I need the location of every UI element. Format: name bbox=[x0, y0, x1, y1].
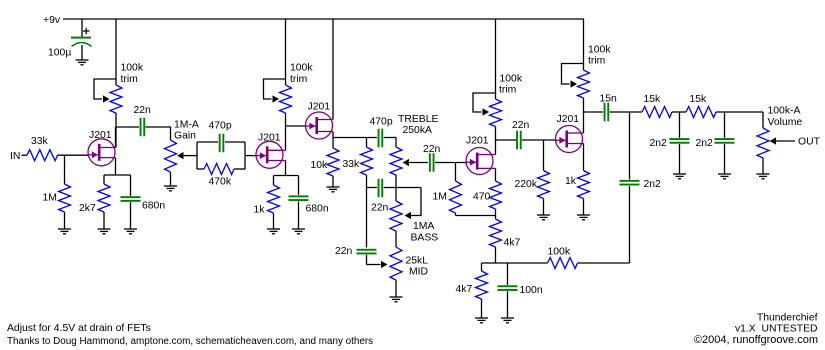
wire C-100u to ground bbox=[81, 45, 83, 60]
trimpot TR4 100k zigzag bbox=[578, 70, 590, 98]
svg-text:Thunderchief: Thunderchief bbox=[757, 313, 818, 324]
trimpot TR3 wiper bbox=[473, 93, 496, 116]
ground under 1k stage2 bbox=[267, 229, 280, 234]
potentiometer treble 250kA zigzag bbox=[390, 138, 402, 202]
svg-text:Thanks to Doug Hammond, ampton: Thanks to Doug Hammond, amptone.com, sch… bbox=[7, 336, 373, 347]
resistor 470k bbox=[204, 164, 234, 175]
capacitor 100n bbox=[498, 263, 518, 318]
svg-text:15k: 15k bbox=[644, 94, 662, 105]
svg-text:2n2: 2n2 bbox=[644, 179, 662, 190]
transistor Q4 J201 bbox=[466, 148, 496, 175]
svg-text:100k: 100k bbox=[290, 63, 313, 74]
trimpot TR3 100k zigzag bbox=[490, 99, 502, 127]
ground under 100n bbox=[501, 318, 514, 323]
wire bottom node bbox=[482, 262, 548, 264]
resistor 4k7 stage4 bbox=[490, 219, 502, 263]
ground under 680n stage1 bbox=[124, 229, 137, 234]
treble pot wiper bbox=[403, 159, 429, 166]
svg-text:J201: J201 bbox=[258, 133, 281, 144]
wire J1 source down bbox=[115, 158, 117, 175]
ground under 100u bbox=[76, 60, 89, 65]
wire feedback vertical lower bbox=[629, 186, 631, 263]
capacitor 2n2 second bbox=[715, 112, 735, 174]
wire 15k2 to volume bbox=[716, 111, 763, 113]
wire C22n to gain pot bbox=[146, 127, 171, 140]
ground under 220k bbox=[537, 215, 550, 220]
wire loop bottom right bbox=[234, 168, 245, 170]
transistor Q2 J201 bbox=[256, 141, 286, 168]
resistor 2k7 stage1 source bbox=[98, 175, 110, 229]
capacitor 470p stage2 bbox=[219, 134, 221, 153]
wire 9v to trim2 bbox=[285, 19, 287, 85]
wire C22n to J4 gate bbox=[435, 162, 466, 164]
capacitor 2n2 feedback bbox=[620, 180, 640, 182]
resistor 220k stage5 gate bbox=[538, 140, 550, 215]
wire volume to ground bbox=[762, 158, 764, 174]
transistor Q1 J201 bbox=[88, 139, 116, 166]
svg-text:100µ: 100µ bbox=[48, 48, 71, 59]
svg-text:4k7: 4k7 bbox=[456, 284, 473, 295]
svg-text:TREBLE: TREBLE bbox=[398, 114, 438, 125]
capacitor 22n stage4 out bbox=[516, 131, 518, 150]
svg-text:+9v: +9v bbox=[43, 15, 61, 26]
ground under 10k bbox=[327, 187, 340, 192]
svg-text:2n2: 2n2 bbox=[650, 138, 668, 149]
svg-text:10k: 10k bbox=[311, 160, 329, 171]
svg-text:1M: 1M bbox=[43, 193, 57, 204]
wire loop left side bbox=[196, 142, 198, 169]
ground under 1M bbox=[58, 229, 71, 234]
capacitor 22n stage1 out bbox=[140, 118, 142, 137]
wire 9v to trim1 bbox=[115, 19, 117, 85]
wire feedback vertical upper bbox=[629, 112, 631, 180]
capacitor 22n bass bbox=[378, 179, 380, 198]
svg-text:Volume: Volume bbox=[768, 117, 803, 128]
svg-text:Adjust for 4.5V at drain of FE: Adjust for 4.5V at drain of FETs bbox=[7, 323, 151, 334]
capacitor 22n treble out bbox=[429, 153, 431, 172]
potentiometer volume 100k-A zigzag bbox=[757, 128, 769, 158]
wire tone node right bbox=[384, 137, 396, 139]
trimpot TR1 wiper bbox=[94, 79, 116, 103]
svg-text:OUT: OUT bbox=[798, 137, 821, 148]
resistor 33k slope bbox=[361, 138, 373, 188]
svg-text:15n: 15n bbox=[600, 94, 618, 105]
wire trim1 to J1 drain bbox=[115, 113, 117, 148]
ground under 2n2 second bbox=[718, 174, 731, 179]
svg-text:470p: 470p bbox=[209, 121, 232, 132]
svg-text:BASS: BASS bbox=[411, 233, 439, 244]
resistor 1k stage2 source bbox=[268, 176, 280, 230]
wire 100k to feedback vertical bbox=[578, 262, 630, 264]
svg-text:250kA: 250kA bbox=[403, 125, 433, 136]
transistor Q3 J201 bbox=[306, 112, 334, 139]
wire tone node left bbox=[333, 137, 377, 139]
svg-text:1MA: 1MA bbox=[413, 221, 434, 232]
capacitor 100u polarity + bbox=[83, 30, 90, 32]
trimpot TR2 wiper bbox=[264, 79, 286, 103]
svg-text:J201: J201 bbox=[308, 102, 331, 113]
svg-text:trim: trim bbox=[121, 74, 138, 85]
svg-text:680n: 680n bbox=[306, 204, 329, 215]
wire IN stub bbox=[22, 154, 28, 156]
svg-text:1M-A: 1M-A bbox=[174, 120, 199, 131]
svg-text:100k: 100k bbox=[588, 45, 611, 56]
capacitor 680n stage1 bbox=[121, 175, 141, 229]
wire loop top left bbox=[197, 141, 218, 143]
wire bass node left bbox=[367, 187, 378, 189]
wire C15n to fb node bbox=[610, 111, 643, 113]
ground under gain pot bbox=[164, 186, 177, 191]
capacitor 100u bbox=[71, 37, 92, 47]
ground under 2n2 first bbox=[673, 174, 686, 179]
resistor 470 stage4 bbox=[490, 181, 502, 219]
trimpot TR1 100k zigzag bbox=[110, 85, 122, 113]
resistor 1M stage4 gate bbox=[450, 163, 462, 216]
ground under 1k stage5 bbox=[577, 215, 590, 220]
resistor 15k second bbox=[686, 107, 716, 118]
svg-text:22n: 22n bbox=[512, 120, 530, 131]
svg-text:1k: 1k bbox=[254, 205, 266, 216]
svg-text:J201: J201 bbox=[557, 114, 580, 125]
svg-text:J201: J201 bbox=[466, 136, 489, 147]
trimpot TR4 wiper bbox=[562, 64, 584, 88]
ground under 680n stage2 bbox=[292, 229, 305, 234]
wire J2 drain junction to J3 gate bbox=[286, 125, 306, 127]
wire bass wiper feed bbox=[411, 188, 421, 216]
svg-text:15k: 15k bbox=[690, 94, 708, 105]
ground under volume bbox=[757, 174, 770, 179]
mid wiper wire bbox=[367, 264, 381, 266]
wire J3 drain to rail bbox=[332, 19, 334, 120]
potentiometer bass 1MA zigzag bbox=[390, 201, 402, 247]
capacitor 470p treble bbox=[378, 129, 380, 148]
wire 9v to trim4 bbox=[583, 19, 585, 70]
wire 9v to trim3 bbox=[495, 19, 497, 99]
bass pot wiper arrow bbox=[405, 212, 412, 219]
wire 33k to J1 gate bbox=[58, 154, 89, 156]
svg-text:25kL: 25kL bbox=[406, 256, 429, 267]
svg-text:33k: 33k bbox=[343, 159, 361, 170]
svg-text:v1.X UNTESTED: v1.X UNTESTED bbox=[735, 324, 818, 335]
svg-text:2n2: 2n2 bbox=[696, 138, 714, 149]
svg-text:470k: 470k bbox=[209, 177, 232, 188]
wire 1M bottom tie bbox=[456, 215, 496, 217]
wire J1 drain up bbox=[115, 127, 117, 148]
wire loop top right bbox=[225, 141, 245, 143]
wire trim4 junction to C15n bbox=[584, 111, 604, 113]
svg-text:220k: 220k bbox=[515, 179, 538, 190]
ground under 4k7 bbox=[475, 318, 488, 323]
svg-text:4k7: 4k7 bbox=[504, 238, 521, 249]
wire J5 source down bbox=[583, 144, 585, 171]
gain pot wiper bbox=[177, 152, 197, 159]
svg-text:100k: 100k bbox=[500, 74, 523, 85]
svg-text:100k: 100k bbox=[121, 63, 144, 74]
svg-text:100n: 100n bbox=[520, 285, 543, 296]
svg-text:100k-A: 100k-A bbox=[768, 106, 801, 117]
svg-text:Gain: Gain bbox=[174, 131, 196, 142]
capacitor 22n mid branch bbox=[357, 188, 377, 265]
wire trim2 to J2 drain bbox=[285, 113, 287, 150]
svg-text:IN: IN bbox=[10, 151, 20, 162]
svg-text:trim: trim bbox=[499, 85, 516, 96]
resistor 33k input bbox=[27, 150, 58, 161]
trimpot TR2 100k zigzag bbox=[280, 85, 292, 113]
wire J4 source down bbox=[495, 168, 497, 181]
potentiometer mid 25kL zigzag bbox=[390, 247, 402, 297]
resistor 1M stage1 gate bbox=[59, 155, 71, 229]
wire C22n to J5 gate bbox=[522, 139, 556, 141]
svg-text:MID: MID bbox=[409, 267, 428, 278]
svg-text:2k7: 2k7 bbox=[79, 203, 96, 214]
resistor 4k7 to ground bbox=[476, 263, 488, 318]
svg-text:22n: 22n bbox=[335, 246, 353, 257]
wire J3 source down bbox=[332, 132, 334, 149]
svg-text:100k: 100k bbox=[548, 247, 571, 258]
svg-text:J201: J201 bbox=[89, 130, 112, 141]
wire wiper to OUT bbox=[776, 140, 795, 142]
svg-text:470p: 470p bbox=[370, 117, 393, 128]
resistor 15k first bbox=[642, 107, 672, 118]
transistor Q5 J201 bbox=[556, 126, 584, 153]
wire trim4 to J5 drain bbox=[583, 98, 585, 133]
svg-text:22n: 22n bbox=[423, 144, 441, 155]
svg-text:22n: 22n bbox=[371, 203, 389, 214]
wire bass node right bbox=[384, 187, 421, 189]
wire volume top bbox=[762, 112, 764, 128]
resistor 1k stage5 bbox=[578, 171, 590, 216]
wire loop to J2 gate bbox=[245, 155, 257, 157]
wire +9v rail bbox=[63, 18, 584, 20]
resistor 10k stage3 bbox=[327, 148, 339, 187]
wire loop bottom left bbox=[197, 168, 204, 170]
capacitor 2n2 first bbox=[670, 112, 690, 174]
svg-text:470: 470 bbox=[473, 192, 491, 203]
svg-text:680n: 680n bbox=[142, 201, 165, 212]
wire trim1 bottom to C22n bbox=[116, 126, 139, 128]
wire J4 drain node to C22n bbox=[496, 139, 517, 141]
capacitor 680n stage2 bbox=[289, 176, 309, 230]
wire loop right side bbox=[244, 142, 246, 169]
svg-text:1M: 1M bbox=[433, 192, 447, 203]
ground under 2k7 bbox=[98, 229, 111, 234]
ground under mid pot bbox=[390, 297, 403, 302]
resistor 100k feedback bbox=[548, 258, 578, 269]
svg-text:33k: 33k bbox=[31, 136, 49, 147]
mid pot wiper arrow bbox=[381, 261, 388, 268]
wire gain pot to ground bbox=[170, 172, 172, 186]
wire stage1 source node bbox=[104, 174, 131, 176]
svg-text:22n: 22n bbox=[134, 105, 152, 116]
svg-text:1k: 1k bbox=[565, 176, 577, 187]
wire trim3 to J4 drain bbox=[495, 127, 497, 155]
wire J2 source down bbox=[285, 161, 287, 176]
wire 9v to C-100u bbox=[81, 19, 83, 37]
wire stage2 source node bbox=[274, 175, 299, 177]
potentiometer 1M-A gain zigzag bbox=[165, 140, 177, 172]
wire 15k1 to 15k2 bbox=[672, 111, 686, 113]
volume wiper arrow bbox=[770, 137, 777, 144]
capacitor 15n bbox=[604, 103, 606, 122]
svg-text:trim: trim bbox=[588, 56, 605, 67]
svg-text:trim: trim bbox=[290, 74, 307, 85]
svg-text:©2004, runoffgroove.com: ©2004, runoffgroove.com bbox=[694, 334, 818, 346]
